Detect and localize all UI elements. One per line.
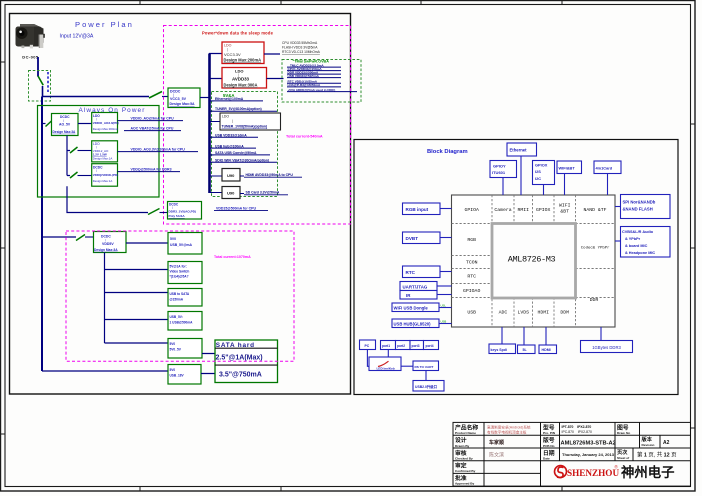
regulator VDD12_AO <box>92 141 118 162</box>
svg-text:Design Max:3A: Design Max:3A <box>53 130 77 134</box>
regulator VCC5_5V <box>168 88 200 108</box>
svg-text:VDDIO_AO3.3(PD): VDDIO_AO3.3(PD) <box>93 121 119 125</box>
svg-text:SD Card 3.3V@50mA: SD Card 3.3V@50mA <box>246 191 280 195</box>
right drawing sheet border (block diagram page) <box>354 140 678 395</box>
svg-text:AML8726M3-STB-A2: AML8726M3-STB-A2 <box>561 441 616 447</box>
connector port3 <box>410 341 424 350</box>
load box video switch <box>168 262 202 284</box>
svg-text:Design Max:3A: Design Max:3A <box>94 248 118 252</box>
region Always On Power <box>38 106 160 198</box>
svg-text:CPU VDD33 55MhOmA: CPU VDD33 55MhOmA <box>282 41 318 45</box>
switch S1 box (dashed) <box>29 71 51 102</box>
svg-text:图号: 图号 <box>617 423 629 431</box>
svg-text:keys Spdi: keys Spdi <box>491 348 507 352</box>
svg-text:USB HUB(GL8520): USB HUB(GL8520) <box>394 322 432 327</box>
svg-text:WIFI&BT: WIFI&BT <box>559 165 576 170</box>
svg-text:RS TO UART: RS TO UART <box>415 365 434 369</box>
connector PC <box>360 340 376 350</box>
svg-text:SATA hard: SATA hard <box>216 342 255 349</box>
wire <box>401 365 413 367</box>
connector 5V <box>518 327 536 354</box>
svg-text:port3: port3 <box>412 344 420 348</box>
wire <box>162 96 168 98</box>
svg-text:TCON: TCON <box>466 260 478 266</box>
connector port1 <box>381 341 396 350</box>
svg-text:USB_18V: USB_18V <box>170 373 185 377</box>
svg-text:高清晰度安卓(Android)系统: 高清晰度安卓(Android)系统 <box>487 424 531 429</box>
logo SHENZHOU <box>555 464 676 480</box>
converter RS TO UART <box>413 361 439 371</box>
svg-text:Total current:1070mA: Total current:1070mA <box>214 255 251 259</box>
svg-text:4in1Card: 4in1Card <box>596 165 613 170</box>
svg-text:Revision: Revision <box>642 443 655 447</box>
svg-text:U90: U90 <box>227 173 235 178</box>
svg-text:Sheet of: Sheet of <box>617 456 630 460</box>
connector U90 SD card <box>222 187 288 199</box>
svg-text:GPIOAO: GPIOAO <box>463 288 480 294</box>
svg-text:页次: 页次 <box>617 448 628 456</box>
connector HDMI out <box>539 327 557 354</box>
svg-text:& YPbPr: & YPbPr <box>625 237 641 241</box>
wire from DC jack <box>37 57 39 77</box>
svg-text:产品名称: 产品名称 <box>455 423 478 431</box>
svg-text:TUNER_5V@8100mA(option): TUNER_5V@8100mA(option) <box>215 107 262 111</box>
svg-text:5V0: 5V0 <box>170 237 176 241</box>
svg-text:USB_5V@mA: USB_5V@mA <box>170 243 193 247</box>
svg-text:DC-005: DC-005 <box>22 54 39 59</box>
dc jack J1 (DC-005 power connector) <box>16 24 45 48</box>
wire <box>160 212 168 214</box>
load box USB to SATA <box>168 289 202 307</box>
wire DDR3 row <box>67 186 148 212</box>
svg-text:Design Max:1A: Design Max:1A <box>93 157 113 161</box>
svg-text:ITU601: ITU601 <box>492 170 506 175</box>
svg-text:USB_5V:: USB_5V: <box>170 315 183 319</box>
svg-text:RMII: RMII <box>517 207 529 213</box>
svg-text:I2S: I2S <box>535 169 541 174</box>
svg-text:HDMI: HDMI <box>537 310 549 316</box>
board LED keypad <box>369 357 401 371</box>
wire 5V bus <box>208 54 211 194</box>
connector Keys Spdif <box>489 327 516 354</box>
svg-text:CVBS&L/R Audio: CVBS&L/R Audio <box>622 230 654 234</box>
svg-text:Design Max:300A: Design Max:300A <box>224 83 258 88</box>
svg-text:5V0: 5V0 <box>170 342 176 346</box>
connector Ethernet <box>507 143 537 195</box>
wire <box>201 354 215 374</box>
svg-text:USB2.0升级口: USB2.0升级口 <box>415 384 438 389</box>
svg-text:Date: Date <box>543 456 550 460</box>
magenta region: power down in sleep mode <box>164 26 351 225</box>
svg-text:port4: port4 <box>426 344 434 348</box>
magenta region 2 <box>66 231 294 361</box>
svg-text:DCDC: DCDC <box>169 202 179 206</box>
switch S7 <box>76 235 85 241</box>
switch S3 <box>46 121 53 127</box>
svg-text:5V@1A for:: 5V@1A for: <box>170 264 187 268</box>
svg-text:陈文滨: 陈文滨 <box>489 451 504 458</box>
regulator AO_5V <box>52 114 79 136</box>
svg-text:Design Max:5A: Design Max:5A <box>170 102 196 106</box>
svg-text:DDR: DDR <box>590 297 599 303</box>
load box USB 500mA <box>168 312 202 331</box>
svg-text:WIFI USB Dongle: WIFI USB Dongle <box>394 306 429 311</box>
svg-text:GPIOA: GPIOA <box>464 207 479 213</box>
svg-text:2.5"@1A(Max): 2.5"@1A(Max) <box>216 355 263 362</box>
svg-text:版本: 版本 <box>641 435 653 443</box>
pin cell labels <box>463 203 610 316</box>
svg-text:AOC VBAT@5mA for CPU: AOC VBAT@5mA for CPU <box>131 127 174 131</box>
svg-text:Power*down data the sleep mode: Power*down data the sleep mode <box>202 31 274 36</box>
svg-text:LDO: LDO <box>235 69 243 74</box>
load box USB_5V <box>168 233 202 255</box>
net list 5V loads <box>215 97 269 162</box>
svg-text:Drawn By: Drawn By <box>455 444 470 448</box>
svg-text:LED len/Keb: LED len/Keb <box>377 367 395 371</box>
svg-text:A2: A2 <box>663 440 670 446</box>
svg-text:1 USB@500mA: 1 USB@500mA <box>170 320 194 324</box>
svg-text:1GBytes DDR3: 1GBytes DDR3 <box>592 345 621 350</box>
switch S5 <box>70 172 78 178</box>
wire <box>209 54 222 79</box>
svg-text:RTC: RTC <box>467 274 476 280</box>
node loads list <box>282 41 321 54</box>
svg-text:RTC: RTC <box>406 270 416 275</box>
svg-text:RGB input: RGB input <box>406 207 429 212</box>
connector port4 <box>424 341 439 350</box>
regulator VDD5V <box>94 232 127 253</box>
wire <box>126 242 168 244</box>
svg-text:Checked By: Checked By <box>455 456 473 460</box>
svg-text:AVDD33: AVDD33 <box>232 77 250 82</box>
svg-text:DCDC: DCDC <box>60 115 70 119</box>
wire chain bus <box>105 253 169 344</box>
connector IR <box>400 291 452 300</box>
svg-text:USB to SATA: USB to SATA <box>170 292 190 296</box>
title block labels column 1 <box>455 423 478 485</box>
svg-text:LDO: LDO <box>222 114 229 118</box>
svg-text:RTC3 VD-C13 10MhOmA: RTC3 VD-C13 10MhOmA <box>282 50 321 54</box>
svg-text:IPC-870 IPX2-870: IPC-870 IPX2-870 <box>562 430 592 434</box>
svg-text:TUNER_1V08(50mA)(option): TUNER_1V08(50mA)(option) <box>222 125 268 129</box>
svg-text:&BT: &BT <box>560 209 569 215</box>
svg-text:Power Plan: Power Plan <box>75 20 134 29</box>
svg-text:SHENZHOU: SHENZHOU <box>567 468 619 478</box>
load box AO_5V sata <box>168 339 202 359</box>
svg-text:VDDIO_AO3.3V@100mA for CPU: VDDIO_AO3.3V@100mA for CPU <box>131 148 186 152</box>
connector USB HUB GL8520 <box>392 319 452 328</box>
node SATA hard box <box>215 340 278 383</box>
left drawing sheet border <box>10 14 351 395</box>
connector port2 <box>396 341 411 350</box>
wire main 12V rail <box>42 96 149 98</box>
regulator U_LDO2 AVDD33 <box>222 68 267 89</box>
svg-text:& board MIC: & board MIC <box>625 244 648 248</box>
svg-text:USL: USL <box>441 304 447 308</box>
wire <box>367 350 388 367</box>
svg-text:RGB: RGB <box>467 237 476 243</box>
regulator U_LDO1 VCC3.3V <box>222 42 264 64</box>
relay coil mark <box>47 72 49 93</box>
svg-text:Poly 5A/1A: Poly 5A/1A <box>169 214 186 218</box>
net list total output <box>288 63 336 92</box>
connector USB upgrade <box>413 381 444 392</box>
svg-text:VDDQ/VDD2L(PD): VDDQ/VDD2L(PD) <box>93 173 119 177</box>
regulator VDDIO_AO3.3 <box>92 113 119 133</box>
svg-text:DDR3_1V5(AO,PD): DDR3_1V5(AO,PD) <box>169 209 197 213</box>
svg-text:& Headpone MIC: & Headpone MIC <box>625 251 655 255</box>
load box USB_18V <box>168 365 201 385</box>
svg-text:5V0_5V: 5V0_5V <box>170 347 182 351</box>
wire <box>264 54 284 79</box>
svg-text:PCB No: PCB No <box>543 444 555 448</box>
title block table <box>453 422 691 486</box>
chip grid AML8726-M3 <box>452 195 616 327</box>
connector GPIOX I2S I2C <box>533 161 555 196</box>
node total output box (dashed) <box>282 60 361 103</box>
svg-text:DCDC: DCDC <box>170 89 181 93</box>
svg-text:5V0: 5V0 <box>170 368 176 372</box>
svg-text:Confirmed By: Confirmed By <box>455 469 476 473</box>
svg-text:Approved By: Approved By <box>455 482 475 486</box>
svg-text:Pro. P/N: Pro. P/N <box>543 431 556 435</box>
svg-text:DCDC: DCDC <box>93 165 103 169</box>
svg-text:型号: 型号 <box>543 423 555 431</box>
svg-text:HDMI: HDMI <box>542 348 551 352</box>
wire <box>42 123 46 125</box>
connector DVBT <box>403 232 452 244</box>
wire <box>78 175 92 177</box>
svg-text:port2: port2 <box>397 344 405 348</box>
svg-text:Product Name: Product Name <box>455 431 476 435</box>
svg-text:USB: USB <box>467 310 476 316</box>
regulator VDDQ <box>92 164 119 187</box>
connector GPIOY ITU601 <box>490 161 517 196</box>
svg-text:ADC: ADC <box>499 310 508 316</box>
connector RTC battery <box>403 266 452 278</box>
net labels for AO rails <box>131 117 186 172</box>
svg-text:Thursday, January 24, 2013: Thursday, January 24, 2013 <box>562 452 615 457</box>
svg-text:VDDIO_AO@9mA for CPU: VDDIO_AO@9mA for CPU <box>131 117 175 121</box>
svg-text:U90: U90 <box>227 191 235 196</box>
wire <box>200 97 209 99</box>
switch S1 <box>38 76 43 85</box>
svg-text:Ethernet: Ethernet <box>510 148 528 153</box>
regulator DDR3_1V5 <box>168 202 202 220</box>
svg-text:Design Max:1A: Design Max:1A <box>93 179 113 183</box>
svg-text:第 1 页, 共 12 页: 第 1 页, 共 12 页 <box>637 451 677 459</box>
svg-text:USB: USB <box>441 320 447 324</box>
wire left bus <box>41 97 43 372</box>
svg-text:Total current-540mA: Total current-540mA <box>286 135 323 139</box>
connector RGB input <box>403 203 452 215</box>
wire <box>42 86 44 97</box>
connector 4in1Card <box>594 161 621 195</box>
svg-text:port1: port1 <box>382 344 390 348</box>
wires to loads <box>209 101 222 193</box>
svg-text:GPIOY: GPIOY <box>493 163 506 168</box>
svg-text:UART/JTAG: UART/JTAG <box>403 284 428 289</box>
connector WIFI&BT <box>557 161 582 195</box>
connector CVBS audio <box>615 227 670 258</box>
wire <box>78 150 92 152</box>
regulator TUNER_1V08 LDO <box>220 113 281 130</box>
svg-text:&NAND FLASH: &NAND FLASH <box>623 206 653 211</box>
switch S2 <box>149 92 162 99</box>
memory 1GBytes DDR3 <box>581 327 633 353</box>
node 5V&A load list box (dashed) <box>212 92 278 197</box>
svg-text:HDMI AVDD33@50mA to CPU: HDMI AVDD33@50mA to CPU <box>246 173 294 177</box>
svg-text:VCC3_5V: VCC3_5V <box>170 97 187 101</box>
svg-text:GPIOX: GPIOX <box>535 163 548 168</box>
svg-text:Video Switch: Video Switch <box>170 269 190 273</box>
svg-text:VDD15@500mA for CPU: VDD15@500mA for CPU <box>216 206 257 210</box>
svg-text:I2C: I2C <box>535 176 541 181</box>
svg-text:DVBT: DVBT <box>406 236 419 241</box>
svg-text:Input 12V@3A: Input 12V@3A <box>60 33 94 39</box>
svg-text:LVDS: LVDS <box>517 310 529 316</box>
svg-text:GPIOX: GPIOX <box>536 207 551 213</box>
switch S6 <box>148 209 160 215</box>
svg-text:Draw. No: Draw. No <box>617 431 630 435</box>
wire bottom rail <box>42 370 168 372</box>
svg-text:SPI Nor&NANDb: SPI Nor&NANDb <box>623 199 656 204</box>
connector UART/JTAG <box>400 282 452 291</box>
wire internal bus <box>67 136 70 176</box>
svg-text:*(1to4)@5A?: *(1to4)@5A? <box>170 274 189 278</box>
svg-text:WIFI: WIFI <box>559 203 571 209</box>
svg-text:Camera: Camera <box>494 207 511 213</box>
svg-text:神州电子: 神州电子 <box>621 464 675 480</box>
wire <box>78 123 92 125</box>
svg-text:Design Max:200mA: Design Max:200mA <box>224 58 262 63</box>
svg-text:Design Max:300mA: Design Max:300mA <box>93 127 118 131</box>
svg-text:NAND &TF: NAND &TF <box>583 207 606 213</box>
svg-text:DDM: DDM <box>560 310 569 316</box>
wire VDD5V row <box>42 236 76 238</box>
svg-text:AML8726-M3: AML8726-M3 <box>508 255 556 265</box>
svg-text:Block Diagram: Block Diagram <box>427 149 468 155</box>
svg-text:AO_5V: AO_5V <box>59 122 71 126</box>
title block labels column 3 <box>542 423 655 460</box>
svg-text:VCC3.3V: VCC3.3V <box>224 52 241 57</box>
svg-text:IPT-870 IPX2-870: IPT-870 IPX2-870 <box>562 425 592 429</box>
switch S4 <box>70 147 78 153</box>
core cell <box>492 224 576 299</box>
connector WIFI USB Dongle <box>392 303 452 312</box>
svg-text:车家顺: 车家顺 <box>489 439 504 446</box>
svg-text:VDD5V: VDD5V <box>102 242 114 246</box>
svg-text:3.5"@750mA: 3.5"@750mA <box>219 372 262 379</box>
memory SPI NOR NAND FLASH <box>615 195 670 219</box>
svg-text:有线数字电视机顶盒主板: 有线数字电视机顶盒主板 <box>487 430 527 435</box>
svg-text:FLASH VDD3 3V@5mA: FLASH VDD3 3V@5mA <box>282 46 318 50</box>
svg-text:DCDC: DCDC <box>101 235 111 239</box>
connector U90 HDMI <box>222 169 302 182</box>
svg-text:VDDQ@500mA for DDR3: VDDQ@500mA for DDR3 <box>131 168 172 172</box>
svg-text:@150mA: @150mA <box>170 297 184 301</box>
svg-text:PC: PC <box>365 344 370 348</box>
wire <box>425 371 427 381</box>
svg-text:Codec& YPbPr: Codec& YPbPr <box>581 246 610 251</box>
